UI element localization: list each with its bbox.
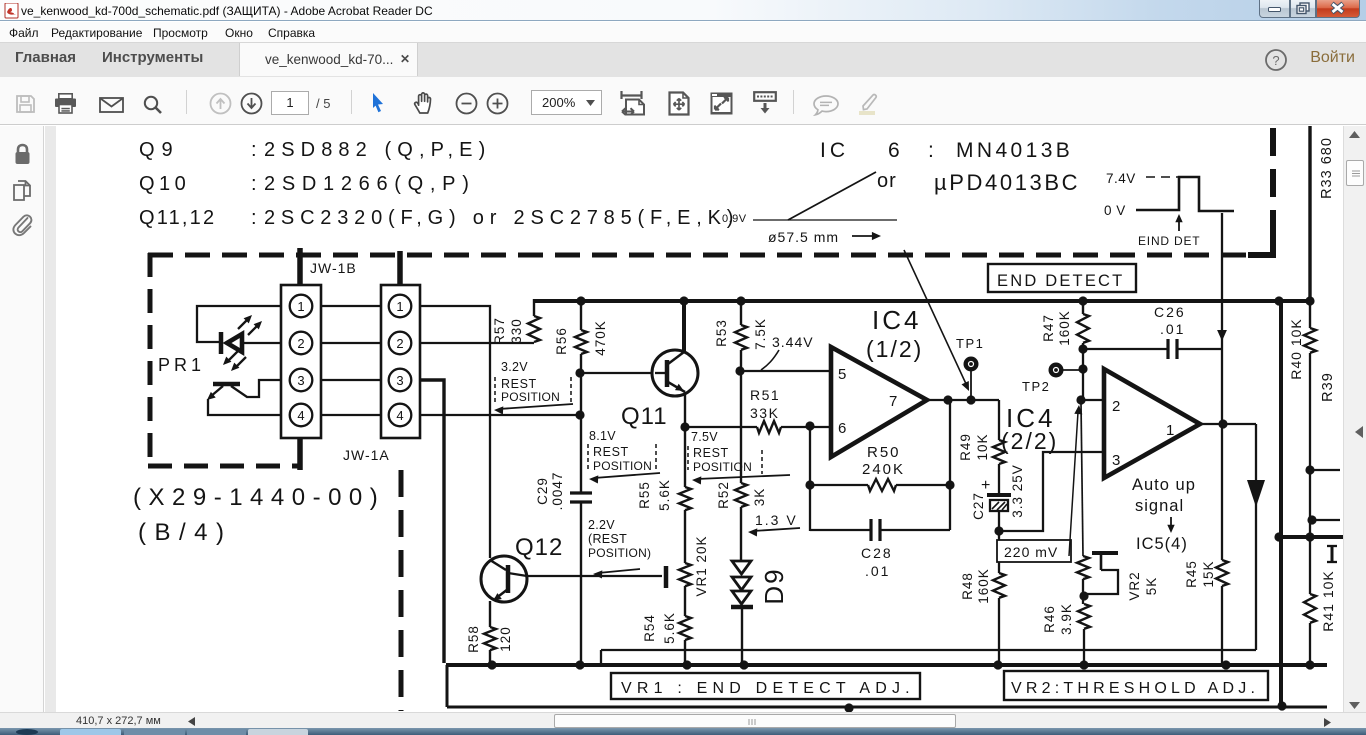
full screen icon	[710, 92, 733, 115]
waveform dashed level line	[1146, 176, 1178, 178]
svg-text:1: 1	[1166, 422, 1174, 439]
junction bottom rail a	[844, 703, 853, 712]
svg-text:R48: R48	[960, 572, 975, 600]
svg-text:VR1 20K: VR1 20K	[694, 535, 709, 596]
svg-text:TP2: TP2	[1022, 379, 1050, 394]
junction C27 bottom node	[994, 526, 1003, 535]
wire R49 to C27	[998, 464, 1000, 496]
test point TP1	[970, 371, 972, 400]
svg-text:.01: .01	[865, 563, 890, 579]
svg-text:(1/2): (1/2)	[866, 336, 923, 362]
svg-text:5.6K: 5.6K	[662, 612, 677, 644]
svg-text:R41 10K: R41 10K	[1320, 570, 1336, 631]
search	[141, 95, 166, 115]
signal arrow on EIND wire	[1217, 330, 1227, 341]
svg-text:POSITION: POSITION	[501, 390, 560, 404]
svg-text:POSITION: POSITION	[593, 459, 652, 473]
svg-text:?: ?	[1272, 53, 1279, 68]
svg-text:4: 4	[396, 408, 403, 423]
svg-text::: :	[928, 139, 934, 162]
wire R45 to bus	[1221, 586, 1223, 663]
VR1 wiper bar	[664, 566, 669, 588]
LED emission arrows	[238, 318, 249, 329]
resistor R47	[1082, 301, 1084, 314]
wire bottom bus	[446, 663, 1327, 667]
svg-text::: :	[251, 173, 257, 195]
svg-text:END DETECT: END DETECT	[997, 272, 1124, 290]
svg-text:R56: R56	[554, 327, 569, 355]
dashed border right vertical	[1270, 128, 1276, 230]
svg-text:7.5K: 7.5K	[753, 318, 768, 350]
svg-text:JW-1A: JW-1A	[343, 447, 390, 463]
save (disabled)	[15, 94, 36, 114]
wire main top bus	[533, 299, 1310, 303]
junction R45/bus	[1221, 660, 1230, 669]
svg-text:2SD1266(Q,P): 2SD1266(Q,P)	[264, 173, 476, 195]
pointer line to or	[788, 172, 876, 220]
wire node to pin3 elbow	[999, 452, 1104, 531]
svg-text:0.9V: 0.9V	[722, 213, 747, 225]
capacitor C26	[1083, 348, 1168, 350]
waveform trigger arrow	[1178, 219, 1180, 231]
resistor R57	[528, 316, 540, 342]
wire R51 to pin6	[781, 426, 831, 428]
resistor R45	[1216, 560, 1228, 586]
zoom in	[486, 92, 509, 115]
resistor R52	[740, 371, 742, 483]
wire feedback right branch	[949, 400, 951, 530]
junction bus/R47	[1078, 296, 1087, 305]
photo arrows into transistor	[235, 357, 246, 368]
wire pin3 JW-1A down to bottom bus	[420, 380, 444, 663]
wire node down to R48	[998, 531, 1000, 573]
wire R50 row	[810, 484, 868, 486]
svg-text:4: 4	[297, 408, 304, 423]
transistor Q11	[682, 301, 686, 352]
box VR1 END DETECT ADJ	[611, 673, 920, 699]
wire pin7 to R49	[998, 400, 1000, 440]
svg-text:.0047: .0047	[550, 472, 565, 511]
capacitor C29	[570, 491, 592, 494]
svg-text:3: 3	[1112, 452, 1120, 469]
svg-text:R39: R39	[1320, 372, 1336, 402]
svg-text:IC4: IC4	[872, 305, 921, 335]
svg-text:7: 7	[889, 393, 897, 410]
waveform pulse	[1136, 177, 1234, 211]
svg-text:330: 330	[509, 318, 524, 344]
junction R58/bus	[487, 660, 496, 669]
svg-text:R57: R57	[492, 317, 507, 345]
svg-text:3.2V: 3.2V	[501, 360, 528, 374]
junction bottom rail b	[1277, 701, 1286, 710]
svg-text:R47: R47	[1041, 314, 1056, 342]
pointer 220mV to pin2	[1069, 412, 1078, 556]
svg-text:0 V: 0 V	[1104, 203, 1126, 218]
wire pin6 from Q11 via R51	[685, 426, 757, 428]
svg-text:3: 3	[297, 373, 304, 388]
wire R56 to C29 column	[580, 354, 582, 492]
svg-text:ø57.5 mm: ø57.5 mm	[768, 229, 839, 245]
junction C26 tap	[1078, 344, 1087, 353]
svg-text:3K: 3K	[752, 488, 767, 507]
capacitor C28	[810, 529, 871, 531]
junction R50 left	[805, 480, 814, 489]
svg-text:REST: REST	[693, 446, 729, 460]
wire R50 to right branch	[896, 484, 950, 486]
highlighter (muted)	[853, 93, 881, 116]
wire R40 down	[1309, 353, 1311, 594]
svg-text:Q10: Q10	[139, 173, 190, 195]
collapse arrow	[46, 421, 55, 432]
hand	[411, 91, 437, 115]
wire C27 to node	[998, 511, 1000, 531]
svg-text:C29: C29	[535, 477, 550, 505]
junction R54/bus	[682, 660, 691, 669]
junction R48/bus	[993, 660, 1002, 669]
svg-text:R49: R49	[958, 433, 973, 461]
svg-text:R46: R46	[1042, 605, 1057, 633]
page down	[240, 92, 263, 115]
svg-text:5K: 5K	[1144, 577, 1159, 596]
VR2 wiper	[1092, 551, 1118, 555]
auto up signal big arrow	[1247, 480, 1265, 507]
wire VR2 to R46	[1082, 579, 1084, 604]
svg-text:2.2V: 2.2V	[588, 518, 615, 532]
wire output pin7	[927, 399, 999, 401]
svg-text:REST: REST	[501, 377, 537, 391]
svg-text:R54: R54	[642, 614, 657, 642]
svg-text:3: 3	[396, 373, 403, 388]
print	[53, 93, 78, 114]
wire R41 to bus	[1309, 623, 1311, 663]
svg-text:signal: signal	[1135, 497, 1184, 515]
envelope	[99, 97, 124, 113]
svg-text:(REST: (REST	[588, 532, 627, 546]
svg-text:Q11: Q11	[621, 403, 668, 430]
wire stub right lower	[1312, 519, 1340, 521]
capacitor mark right edge	[1331, 546, 1334, 562]
phototransistor PR1	[213, 382, 240, 387]
resistor R56	[580, 301, 582, 330]
svg-text:470K: 470K	[593, 320, 608, 356]
svg-text:R50: R50	[867, 444, 901, 461]
connector JW-1B stub bottom	[297, 437, 303, 470]
trimmer VR2	[1077, 556, 1089, 579]
svg-text:2SD882 (Q,P,E): 2SD882 (Q,P,E)	[264, 139, 491, 161]
wire pin4 JW-1A to R56 column	[420, 414, 580, 416]
wire pins between connectors	[321, 305, 381, 307]
wire bus drop left	[446, 665, 449, 707]
resistor R41	[1304, 594, 1316, 623]
junction bus/R56	[576, 296, 585, 305]
wire R47 column	[1082, 343, 1084, 399]
svg-text:2: 2	[297, 336, 304, 351]
wire pin1 to LED cathode	[197, 306, 281, 342]
wire right column from top	[1308, 125, 1311, 301]
svg-text:2SC2320(F,G) or 2SC2785(F,E,K): 2SC2320(F,G) or 2SC2785(F,E,K)	[264, 207, 739, 229]
svg-text:POSITION): POSITION)	[588, 546, 651, 560]
resistor R51	[757, 421, 781, 433]
wire output down branch	[1255, 424, 1257, 650]
wire R54 to bus	[684, 640, 686, 663]
connector JW-1B stub top	[297, 248, 303, 286]
connector JW-1B	[281, 285, 321, 438]
svg-text:µPD4013BC: µPD4013BC	[934, 170, 1080, 195]
svg-text:1: 1	[396, 299, 403, 314]
svg-text::: :	[251, 139, 257, 161]
pages icon	[12, 179, 33, 202]
wire VR2 riser to pin2	[1081, 403, 1083, 556]
svg-text:PR1: PR1	[158, 355, 205, 375]
svg-text:(2/2): (2/2)	[1001, 428, 1058, 454]
svg-text:MN4013B: MN4013B	[956, 139, 1073, 162]
wire feedback bottom row	[601, 649, 1256, 651]
junction R56/Q11 base	[575, 368, 584, 377]
comment bubble (muted)	[813, 95, 839, 116]
svg-text:R52: R52	[716, 481, 731, 509]
junction pin2 node	[1076, 395, 1085, 404]
wire R52 to D9	[740, 507, 742, 562]
connector JW-1A stub top	[397, 251, 403, 286]
dashed border corner	[1248, 226, 1273, 255]
scroll mode icon	[620, 91, 647, 116]
junction pin7/feedback	[943, 395, 952, 404]
svg-text:5: 5	[838, 366, 846, 383]
svg-text:R51: R51	[750, 387, 780, 403]
diode D9 string	[732, 561, 751, 574]
box END DETECT	[988, 264, 1136, 292]
wire pin2	[1081, 399, 1104, 401]
op-amp IC4 2/2	[1104, 369, 1200, 478]
svg-text:1.3 V: 1.3 V	[755, 512, 798, 528]
dashed border PR1 box bottom	[148, 464, 302, 469]
resistor R54	[684, 586, 686, 616]
wire R48 to bus	[998, 598, 1000, 663]
wire Q11 base	[581, 372, 654, 374]
zoom out	[455, 92, 478, 115]
select cursor (active, blue)	[369, 92, 387, 114]
svg-text:Q9: Q9	[139, 139, 180, 161]
dashed border below JW-1A	[399, 470, 404, 711]
resistor R53	[740, 301, 742, 325]
svg-text:15K: 15K	[1201, 560, 1216, 587]
wire thick right vertical	[1279, 301, 1283, 706]
svg-text:Auto up: Auto up	[1132, 476, 1196, 494]
junction stub 520	[1307, 515, 1316, 524]
svg-text:VR2:THRESHOLD ADJ.: VR2:THRESHOLD ADJ.	[1011, 680, 1259, 697]
svg-text:6: 6	[838, 420, 846, 437]
junction C29 column/bus	[575, 660, 584, 669]
svg-text:.01: .01	[1160, 321, 1185, 337]
junction pin4/R56 column	[575, 410, 584, 419]
svg-text:8.1V: 8.1V	[589, 429, 616, 443]
svg-text:VR2: VR2	[1127, 571, 1142, 600]
svg-text:+: +	[981, 477, 990, 494]
svg-text:R53: R53	[714, 319, 729, 347]
wire pin2 JW-1A to R57	[420, 342, 534, 344]
junction R41/bus	[1305, 660, 1314, 669]
wire feedback left branch	[809, 426, 811, 531]
box VR2 THRESHOLD ADJ	[1004, 671, 1268, 700]
junction R50 right	[945, 480, 954, 489]
wire D9 to bus	[741, 607, 743, 663]
svg-text:POSITION: POSITION	[693, 460, 752, 474]
svg-text:R55: R55	[637, 481, 652, 509]
junction output pin1 node	[1218, 419, 1227, 428]
junction bus right end	[1305, 296, 1314, 305]
LED PR1 emitter	[219, 332, 224, 354]
resistor R58	[484, 627, 496, 650]
dashed border left vertical (PR1 box)	[148, 253, 153, 468]
resistor R48	[993, 573, 1005, 598]
wire bottom rail	[447, 706, 1327, 709]
svg-text:2: 2	[396, 336, 403, 351]
junction D9/bus	[739, 660, 748, 669]
svg-text:3.44V: 3.44V	[772, 334, 814, 350]
wire R53 to pin5	[740, 350, 742, 371]
svg-text:R33 680: R33 680	[1319, 137, 1335, 199]
resistor R40	[1309, 301, 1311, 328]
svg-text:7.5V: 7.5V	[691, 430, 718, 444]
svg-text:(B/4): (B/4)	[138, 519, 233, 546]
svg-text:IC5(4): IC5(4)	[1136, 535, 1188, 553]
paperclip icon	[11, 212, 34, 239]
wire C29 to bottom bus	[580, 503, 582, 663]
svg-text:R58: R58	[466, 625, 481, 653]
junction stub 470	[1305, 465, 1314, 474]
svg-text:160K: 160K	[1057, 310, 1072, 346]
junction bus/Q11 collector	[679, 296, 688, 305]
wire pin1 JW-1A down to Q12 collector	[420, 306, 490, 558]
svg-text:240K: 240K	[862, 461, 905, 478]
box 220mV	[997, 540, 1071, 562]
svg-text:10K: 10K	[975, 433, 990, 460]
svg-text:3.3 25V: 3.3 25V	[1010, 464, 1025, 518]
resistor R49	[993, 440, 1005, 464]
svg-text:220 mV: 220 mV	[1004, 544, 1058, 560]
svg-text:6: 6	[888, 139, 900, 162]
trimmer VR1	[684, 510, 686, 563]
junction bus/R53	[736, 296, 745, 305]
svg-text:C28: C28	[861, 545, 893, 561]
junction bus/thick branch	[1274, 296, 1283, 305]
transistor Q12	[481, 556, 527, 602]
svg-text:TP1: TP1	[956, 336, 984, 351]
junction Q11 emitter node	[680, 422, 689, 431]
wire row 537	[1279, 535, 1343, 539]
svg-text:EIND DET: EIND DET	[1138, 234, 1200, 248]
svg-text:(X29-1440-00): (X29-1440-00)	[133, 484, 385, 511]
svg-text:D9: D9	[759, 567, 789, 604]
svg-text:5.6K: 5.6K	[657, 479, 672, 511]
wire output pin1	[1200, 423, 1256, 425]
svg-text:R40 10K: R40 10K	[1288, 318, 1304, 379]
junction pin6 feedback node	[805, 421, 814, 430]
wire R46 to bus	[1083, 629, 1085, 663]
svg-text:VR1 : END DETECT ADJ.: VR1 : END DETECT ADJ.	[621, 680, 915, 697]
svg-text:Q11,12: Q11,12	[139, 207, 216, 229]
svg-text:JW-1B: JW-1B	[310, 260, 357, 276]
junction R40 column/537 row	[1305, 532, 1314, 541]
connector JW-1A	[381, 285, 420, 438]
svg-text:1: 1	[297, 299, 304, 314]
svg-text:120: 120	[498, 626, 513, 652]
svg-text:3.9K: 3.9K	[1059, 603, 1074, 635]
junction VR2/R46	[1079, 591, 1088, 600]
lock icon	[13, 143, 32, 166]
junction thick/537 row	[1274, 532, 1283, 541]
svg-text:7.4V: 7.4V	[1106, 171, 1136, 186]
svg-text:2: 2	[1112, 398, 1120, 415]
test point TP2	[1063, 369, 1083, 371]
wire R58 to bus	[489, 650, 491, 663]
wire stub right upper	[1310, 469, 1340, 471]
wire EIND DET down	[1221, 213, 1223, 560]
svg-text::: :	[251, 207, 257, 229]
wire bus elbow to R57	[533, 299, 535, 316]
svg-text:C27: C27	[971, 492, 986, 520]
svg-text:160K: 160K	[976, 568, 991, 604]
junction pin7/TP1 node	[966, 395, 975, 404]
wire pin1 column crossing	[489, 306, 491, 343]
junction TP2 tap	[1078, 364, 1087, 373]
junction R46/bus	[1079, 660, 1088, 669]
svg-text:R45: R45	[1184, 560, 1199, 588]
svg-text:33K: 33K	[750, 405, 779, 421]
resistor R55	[684, 427, 686, 487]
wire Q12 base to VR1 wiper	[527, 575, 662, 577]
hide toolbar icon	[753, 91, 777, 116]
resistor R46	[1078, 604, 1090, 629]
svg-text:C26: C26	[1154, 304, 1186, 320]
svg-text:or: or	[877, 170, 897, 192]
pointer line IC6 to TP1	[904, 250, 967, 386]
resistor R50	[868, 479, 896, 491]
svg-text:REST: REST	[593, 445, 629, 459]
junction R53/pin5 node	[735, 366, 744, 375]
dashed border top	[148, 253, 1273, 258]
fit page icon	[667, 91, 691, 116]
svg-text:IC: IC	[820, 139, 849, 162]
op-amp IC4 1/2	[831, 347, 927, 457]
page up (disabled)	[209, 92, 232, 115]
svg-text:Q12: Q12	[515, 534, 563, 561]
